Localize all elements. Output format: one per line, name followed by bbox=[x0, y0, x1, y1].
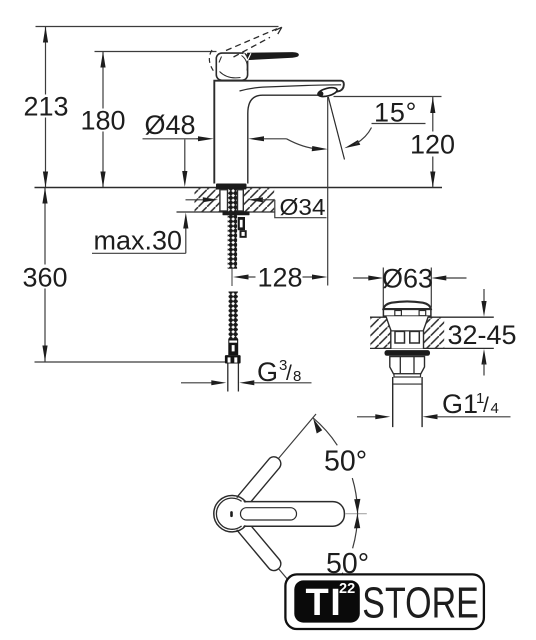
svg-text:8: 8 bbox=[293, 368, 301, 385]
lever hinge notch bbox=[244, 53, 251, 60]
label Ø48 left-pointing arrow at body right bbox=[248, 136, 264, 141]
lever raised back arc (dashed) bbox=[209, 50, 213, 71]
horseshoe mounting plate bbox=[223, 211, 250, 215]
drain washer bbox=[385, 350, 431, 356]
dimension 180 down arrow bbox=[100, 172, 105, 188]
drain tailpipe bbox=[393, 377, 422, 427]
dimension 180 up arrow bbox=[100, 52, 105, 68]
dimension 32-45 lower arrow line bbox=[481, 349, 486, 365]
countertop surface line bbox=[35, 187, 443, 189]
15 degree arc left segment with arrow bbox=[287, 139, 319, 149]
svg-text:max.30: max.30 bbox=[94, 226, 183, 256]
dimension 180 vertical line bbox=[102, 52, 104, 188]
top view angle arc middle segment bbox=[352, 478, 357, 548]
top view angle arc upper segment bbox=[313, 418, 338, 446]
handle cartridge facet lines bbox=[219, 56, 247, 78]
faucet base gasket bbox=[216, 184, 247, 190]
flexible hose lower braid bbox=[229, 292, 238, 340]
dimension 213 up arrow bbox=[43, 27, 48, 43]
label Ø34 right arrow bbox=[248, 197, 263, 202]
countertop underside line bbox=[177, 211, 275, 213]
svg-text:128: 128 bbox=[258, 263, 303, 293]
top view 50 degree ray upper bbox=[241, 414, 317, 504]
drain valve body fill bbox=[386, 316, 428, 348]
store logo outer box bbox=[285, 574, 484, 629]
svg-text:213: 213 bbox=[23, 92, 68, 122]
label Ø48 drop line with down arrow bbox=[184, 140, 186, 173]
basin deck top line bbox=[370, 316, 494, 318]
basin deck bottom line bbox=[370, 347, 494, 349]
top view hub eraser bbox=[215, 497, 249, 531]
dimension 213 vertical line bbox=[45, 27, 47, 188]
svg-text:G1: G1 bbox=[442, 389, 478, 419]
top view lever right outer bbox=[235, 502, 344, 527]
hose tube below nut bbox=[228, 364, 239, 392]
countertop hatch right bbox=[243, 188, 274, 212]
hose gap centerline bbox=[231, 269, 233, 287]
dimension 128 left arrow bbox=[233, 275, 249, 280]
label G 3/8 right arrow and underline bbox=[239, 380, 254, 385]
svg-text:Ø63: Ø63 bbox=[382, 264, 433, 294]
hose ferrule bbox=[228, 339, 238, 355]
top view centerline bbox=[346, 513, 367, 515]
svg-text:32-45: 32-45 bbox=[448, 320, 517, 350]
countertop hatch left bbox=[195, 188, 221, 212]
label Ø34 bracket bbox=[275, 200, 327, 218]
top view lever upper (rotated 50) bbox=[234, 454, 284, 509]
drain cap dome bbox=[383, 301, 431, 309]
svg-text:/: / bbox=[483, 394, 489, 417]
lever handle (solid position) bbox=[248, 53, 299, 60]
svg-text:50°: 50° bbox=[324, 446, 367, 478]
dimension 180 top extension line bbox=[95, 51, 217, 53]
top view 50 degree ray lower bbox=[241, 524, 297, 591]
top view arc centerline arrows bbox=[354, 499, 360, 514]
basin deck hatch left bbox=[370, 318, 391, 349]
dimension 120 up arrow bbox=[430, 97, 435, 113]
hose end nut bbox=[225, 355, 241, 363]
dimension 128 right arrow bbox=[303, 276, 314, 278]
drain nut collar bbox=[394, 374, 421, 377]
label max.30 leader with up arrow bbox=[185, 227, 187, 254]
dimension 213 top extension line bbox=[36, 26, 279, 28]
drain cap slots bbox=[395, 311, 402, 316]
15 degree arc right segment with arrow bbox=[344, 140, 360, 148]
svg-text:360: 360 bbox=[22, 263, 67, 293]
svg-text:180: 180 bbox=[80, 106, 125, 136]
svg-text:Ø48: Ø48 bbox=[145, 110, 196, 140]
water stream 15 degree line bbox=[328, 97, 344, 160]
svg-text:STORE: STORE bbox=[362, 578, 479, 627]
dimension 120 down arrow bbox=[430, 172, 435, 188]
faucet inner profile bbox=[248, 95, 319, 183]
aerator bbox=[317, 86, 338, 98]
label max.30 underline bbox=[92, 252, 186, 254]
top view lever right inner bbox=[241, 508, 297, 520]
label G1 1/4 right arrow and underline bbox=[423, 414, 438, 419]
faucet body outline bbox=[214, 81, 344, 184]
lever handle raised (dashed) bbox=[226, 29, 277, 57]
top view angle arc lower segment bbox=[340, 573, 343, 578]
lever raised tip chevron bbox=[275, 27, 282, 34]
label 15 degrees underline bbox=[372, 123, 426, 125]
svg-text:/: / bbox=[286, 362, 292, 385]
handle cartridge bbox=[216, 53, 247, 80]
label Ø48 right-pointing arrow at body left bbox=[197, 138, 202, 140]
drain dimension Ø63 extension lines bbox=[383, 268, 431, 308]
top view arc top arrowhead bbox=[313, 419, 322, 434]
dimension 360 vertical line bbox=[44, 188, 46, 362]
top view hub inner arc bbox=[216, 498, 241, 529]
threaded shank braid bbox=[228, 188, 237, 268]
dimension 213 down arrow bbox=[43, 172, 48, 188]
dimension 120 top extension line bbox=[334, 96, 442, 98]
drain dimension Ø63 left arrow bbox=[353, 277, 370, 279]
label Ø34 left arrow bbox=[186, 199, 205, 201]
dimension 360 bottom extension line bbox=[35, 361, 226, 363]
dimension 120 vertical line bbox=[432, 97, 434, 188]
top view center dot bbox=[230, 511, 233, 517]
svg-text:120: 120 bbox=[410, 130, 455, 160]
dimension 32-45 upper arrow line bbox=[483, 289, 485, 303]
drain valve body sides bbox=[386, 316, 428, 348]
store logo TI block bbox=[294, 580, 360, 622]
drain hex nut bbox=[390, 357, 425, 374]
dimension 360 up arrow bbox=[42, 188, 47, 204]
faucet spout front edge bbox=[240, 85, 342, 91]
top view hub outer arc bbox=[214, 495, 246, 531]
side stud fitting bbox=[238, 217, 245, 230]
basin deck hatch right bbox=[424, 318, 445, 349]
mounting stud right bbox=[238, 190, 244, 211]
svg-text:TI: TI bbox=[306, 582, 343, 624]
label G1 1/4 left line and arrow bbox=[357, 416, 378, 418]
label G 3/8 left line and arrow bbox=[181, 382, 213, 384]
svg-text:G: G bbox=[257, 357, 278, 387]
drain dimension Ø63 right arrow bbox=[431, 276, 446, 281]
svg-text:Ø34: Ø34 bbox=[280, 194, 326, 220]
svg-text:22: 22 bbox=[339, 581, 355, 597]
water stream vertical line bbox=[327, 97, 329, 286]
mounting stud left bbox=[220, 190, 228, 211]
dimension 360 down arrow bbox=[42, 346, 47, 362]
drain cap lip bbox=[383, 309, 431, 316]
svg-text:4: 4 bbox=[491, 400, 499, 417]
label Ø48 underline bbox=[143, 138, 202, 140]
top view lever lower (rotated -50) bbox=[234, 518, 284, 573]
drain valve ports bbox=[395, 331, 405, 343]
